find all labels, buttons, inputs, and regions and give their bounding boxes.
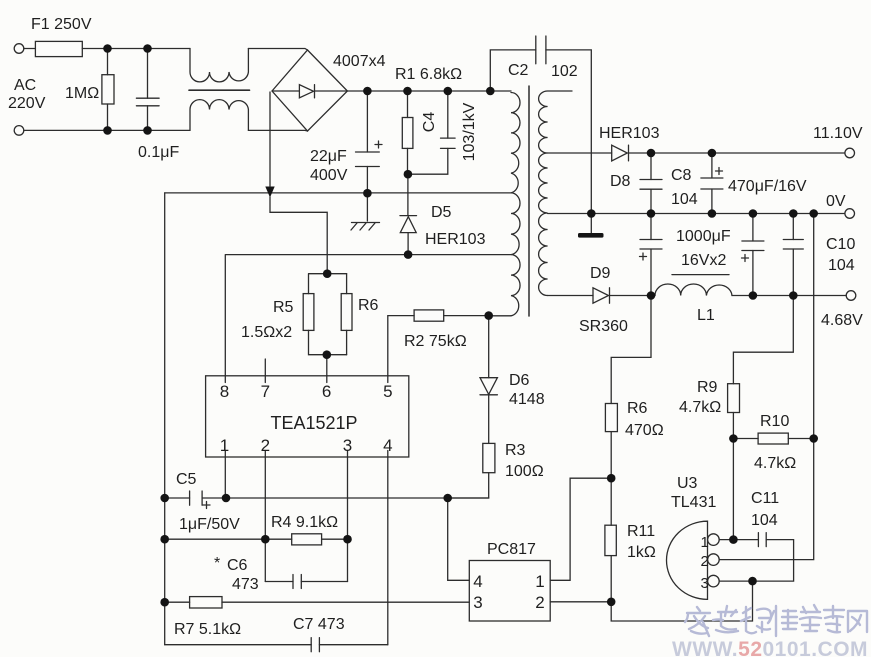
node aux winding / R2 / D6 <box>484 311 493 320</box>
svg-text:D9: D9 <box>590 265 611 282</box>
node left rail / R7 <box>160 598 169 607</box>
svg-text:C10: C10 <box>826 236 855 253</box>
svg-text:104: 104 <box>751 512 778 529</box>
resistor R1 <box>407 91 409 118</box>
ground arrow on bridge negative wire <box>265 187 274 198</box>
svg-text:6: 6 <box>322 382 331 401</box>
node TL431 pin1 / C11 <box>729 535 738 544</box>
node pin3 / R4 right <box>343 535 352 544</box>
wire L1 to 4.68V terminal <box>732 295 846 297</box>
capacitor C8 104 <box>650 153 652 180</box>
primary ground hatch symbol <box>351 223 380 231</box>
transformer core <box>528 86 530 316</box>
TL431 U3 body <box>667 521 708 599</box>
transformer secondary winding <box>539 91 572 296</box>
svg-text:4.7kΩ: 4.7kΩ <box>754 455 796 472</box>
svg-text:HER103: HER103 <box>599 125 660 142</box>
svg-text:1: 1 <box>701 534 709 551</box>
PC817 pin4 wire <box>448 498 470 580</box>
watermark chinese characters (stylized strokes) <box>685 605 867 636</box>
PC817 optocoupler box <box>469 561 550 622</box>
svg-text:4148: 4148 <box>509 391 545 408</box>
svg-text:D8: D8 <box>610 173 631 190</box>
svg-text:C5: C5 <box>176 471 197 488</box>
resistor R10 4.7k <box>758 433 788 444</box>
node HV rail / R1 <box>403 87 412 96</box>
svg-text:*: * <box>214 555 220 572</box>
resistor R2 75k <box>388 316 414 376</box>
wire bridge negative down to primary ground arrow <box>269 92 271 186</box>
capacitor C5 1uF/50V <box>165 497 190 499</box>
svg-text:400V: 400V <box>310 167 348 184</box>
svg-text:R3: R3 <box>505 442 526 459</box>
svg-text:7: 7 <box>261 382 270 401</box>
HV rail from bridge to transformer <box>347 90 511 92</box>
svg-text:11.10V: 11.10V <box>813 125 863 142</box>
svg-text:D6: D6 <box>509 372 530 389</box>
svg-text:103/1kV: 103/1kV <box>461 102 478 161</box>
diode D5 HER103 <box>407 174 409 215</box>
0V rail <box>548 213 845 215</box>
output terminal 11.10V <box>845 148 855 158</box>
node HV rail / C2 / primary top <box>486 87 495 96</box>
node left rail / C5 <box>160 494 169 503</box>
svg-text:5: 5 <box>383 382 392 401</box>
svg-text:470μF/16V: 470μF/16V <box>728 178 807 195</box>
node left rail / rail2 <box>160 535 169 544</box>
svg-text:470Ω: 470Ω <box>625 422 664 439</box>
svg-text:473: 473 <box>232 576 259 593</box>
node fuse-1M top <box>103 44 112 53</box>
pin7 stub <box>264 359 266 376</box>
capacitor 1000uF no.1 <box>650 214 652 240</box>
svg-text:2: 2 <box>535 593 544 612</box>
svg-text:R2 75kΩ: R2 75kΩ <box>404 333 467 350</box>
PC817 pin1 wire <box>550 478 611 580</box>
node 22uF negative / aux rail <box>363 189 372 198</box>
node C5 / pin1 <box>222 494 231 503</box>
svg-text:TEA1521P: TEA1521P <box>270 413 357 433</box>
pin3 wire <box>347 457 349 582</box>
node HV rail / 22uF <box>363 87 372 96</box>
svg-text:R9: R9 <box>697 379 718 396</box>
secondary chassis bar stub <box>590 214 592 234</box>
resistor R6 470 ohm <box>605 404 617 432</box>
node 0V rail / C8 <box>647 209 656 218</box>
node D5 anode rail <box>404 250 413 259</box>
rail 2 with R4 <box>165 538 292 540</box>
svg-text:0V: 0V <box>826 193 846 210</box>
output terminal 0V <box>845 209 855 219</box>
wire bottom AC line <box>24 129 190 131</box>
common-mode choke core <box>189 89 250 91</box>
inductor L1 <box>655 284 732 296</box>
resistor R6 <box>346 274 348 294</box>
node R1-C4-D5 <box>404 170 413 179</box>
rail primary auxiliary (y=193) <box>165 192 511 194</box>
resistor R9 4.7k <box>728 384 740 413</box>
capacitor C10 104 <box>792 214 794 240</box>
svg-text:AC: AC <box>14 77 36 94</box>
PC817 pin2 wire <box>550 601 611 603</box>
common-mode choke top winding <box>190 49 248 82</box>
node 0.1uF bottom <box>143 126 152 135</box>
secondary chassis thick bar <box>578 233 604 238</box>
svg-text:1.5Ωx2: 1.5Ωx2 <box>241 324 292 341</box>
node 4.68V rail / C10 <box>789 291 798 300</box>
node pin2 / R4 left <box>261 535 270 544</box>
node R9-R10 left <box>729 434 738 443</box>
TEA1521P pin lead ticks <box>225 376 387 383</box>
svg-text:1MΩ: 1MΩ <box>65 85 99 102</box>
svg-text:R11: R11 <box>627 523 655 540</box>
wire fuse to choke (top AC line) <box>82 48 190 50</box>
svg-text:102: 102 <box>551 63 578 80</box>
svg-text:PC817: PC817 <box>487 541 536 558</box>
node 11.1V rail / C8 <box>647 149 656 158</box>
svg-text:R1 6.8kΩ: R1 6.8kΩ <box>395 66 462 83</box>
svg-text:C2: C2 <box>508 62 529 79</box>
node R3 / PC817 pin4 <box>443 494 452 503</box>
wire jog to R5 R6 junction <box>270 197 327 274</box>
resistor R7 5.1k <box>165 601 190 603</box>
resistor R3 100 ohm <box>483 443 495 472</box>
svg-text:1μF/50V: 1μF/50V <box>179 516 240 533</box>
svg-text:R10: R10 <box>760 413 789 430</box>
wire junction to pin6 <box>326 355 328 376</box>
node R5-R6 bottom / pin6 <box>323 350 332 359</box>
TEA1521P IC box <box>206 376 409 457</box>
node 1M bottom <box>103 126 112 135</box>
svg-text:C4: C4 <box>421 112 438 133</box>
transformer primary winding <box>511 93 520 316</box>
svg-text:R6: R6 <box>358 297 379 314</box>
svg-text:R5: R5 <box>273 299 294 316</box>
capacitor 22uF 400V <box>366 91 368 152</box>
node R6-R11 / PC817 pin1 <box>607 474 616 483</box>
diode D9 SR360 <box>548 295 593 297</box>
svg-text:R4 9.1kΩ: R4 9.1kΩ <box>271 514 338 531</box>
AC input terminal bottom <box>14 126 24 136</box>
TL431 pin1 wire to C11 <box>719 539 758 541</box>
capacitor C11 104 <box>758 533 766 547</box>
svg-text:U3: U3 <box>677 475 698 492</box>
svg-text:TL431: TL431 <box>671 494 716 511</box>
svg-text:220V: 220V <box>8 95 46 112</box>
svg-text:100Ω: 100Ω <box>505 463 544 480</box>
node D9 / L1 / 1000uF-1 <box>647 291 656 300</box>
svg-text:0.1μF: 0.1μF <box>138 144 179 161</box>
svg-text:4007x4: 4007x4 <box>333 53 386 70</box>
svg-text:2: 2 <box>261 436 270 455</box>
node 0V rail / 1000uF-2 <box>749 209 758 218</box>
svg-text:104: 104 <box>671 191 698 208</box>
svg-text:SR360: SR360 <box>579 318 628 335</box>
svg-text:WWW.520101.COM: WWW.520101.COM <box>672 638 868 657</box>
node 4.68V rail / 1000uF-2 <box>749 291 758 300</box>
diode D8 HER103 <box>548 152 612 154</box>
resistor R11 1k <box>605 525 616 555</box>
svg-text:2: 2 <box>701 553 709 570</box>
resistor 1M ohm <box>107 49 109 75</box>
svg-text:C11: C11 <box>751 490 779 507</box>
svg-text:1: 1 <box>535 572 544 591</box>
capacitor 0.1uF <box>147 49 149 99</box>
wire choke to bridge top <box>248 49 307 51</box>
capacitor C2 102 <box>490 50 536 91</box>
bridge internal diode <box>272 90 299 92</box>
svg-text:8: 8 <box>220 382 229 401</box>
svg-text:4.7kΩ: 4.7kΩ <box>679 399 721 416</box>
resistor R5 <box>309 274 347 294</box>
vertical 0V to R10 to TL431 pin2 <box>720 214 814 560</box>
svg-text:C7 473: C7 473 <box>293 616 345 633</box>
TL431 pin circles <box>708 534 720 546</box>
svg-text:L1: L1 <box>697 307 715 324</box>
bridge rectifier 4007x4 diamond <box>272 50 347 131</box>
node R11 / PC817 pin2 <box>607 598 616 607</box>
svg-text:104: 104 <box>828 257 855 274</box>
svg-text:D5: D5 <box>431 204 452 221</box>
node 0V rail / R10 branch <box>809 209 818 218</box>
svg-text:R7 5.1kΩ: R7 5.1kΩ <box>174 621 241 638</box>
capacitor C6 473 <box>265 581 293 583</box>
left vertical rail <box>164 193 166 645</box>
wire choke to bridge bottom <box>248 129 307 132</box>
node 0V rail / C10 <box>789 209 798 218</box>
capacitor C4 <box>447 91 449 138</box>
AC input terminal top <box>14 44 24 54</box>
rail to pin8 (y=254.6) <box>225 255 511 376</box>
svg-text:3: 3 <box>343 436 352 455</box>
svg-text:C8: C8 <box>671 167 692 184</box>
svg-text:R6: R6 <box>627 400 648 417</box>
svg-text:16Vx2: 16Vx2 <box>681 252 726 269</box>
wire winding bottom tap to D6 <box>489 316 511 378</box>
pin2 wire <box>264 457 266 582</box>
capacitor 1000uF no.2 <box>752 214 754 242</box>
output terminal 4.68V <box>846 291 856 301</box>
svg-text:1000μF: 1000μF <box>676 228 731 245</box>
svg-text:C6: C6 <box>227 557 248 574</box>
node 0.1uF top <box>143 44 152 53</box>
svg-text:F1 250V: F1 250V <box>31 16 92 33</box>
capacitor C7 473 <box>165 644 312 646</box>
wire terminal to fuse <box>24 48 36 50</box>
pin1 wire <box>224 457 226 498</box>
svg-text:3: 3 <box>701 575 709 592</box>
wire C10 column down to R9 <box>733 296 793 384</box>
underline below 16Vx2 label <box>672 274 729 276</box>
fuse F1 <box>35 41 82 56</box>
wire D9 junction down to R6 470 <box>611 296 651 404</box>
svg-text:1: 1 <box>220 436 229 455</box>
node R5-R6 top <box>323 269 332 278</box>
common-mode choke bottom winding <box>190 100 248 131</box>
node 11.1V rail / 470uF <box>708 149 717 158</box>
svg-text:4: 4 <box>383 436 392 455</box>
node HV rail / C4 <box>444 87 453 96</box>
pin4 wire <box>387 457 389 645</box>
node 0V rail / 470uF <box>708 209 717 218</box>
diode D6 4148 <box>480 378 497 395</box>
capacitor 470uF/16V <box>711 153 713 178</box>
node TL431 pin3 <box>748 577 757 586</box>
node R10 right <box>809 434 818 443</box>
svg-text:1kΩ: 1kΩ <box>627 544 656 561</box>
svg-text:HER103: HER103 <box>425 231 486 248</box>
svg-text:4.68V: 4.68V <box>821 312 863 329</box>
node 0V rail / C2 return <box>587 209 596 218</box>
svg-text:4: 4 <box>473 572 482 591</box>
svg-text:3: 3 <box>473 593 482 612</box>
svg-text:22μF: 22μF <box>310 148 347 165</box>
